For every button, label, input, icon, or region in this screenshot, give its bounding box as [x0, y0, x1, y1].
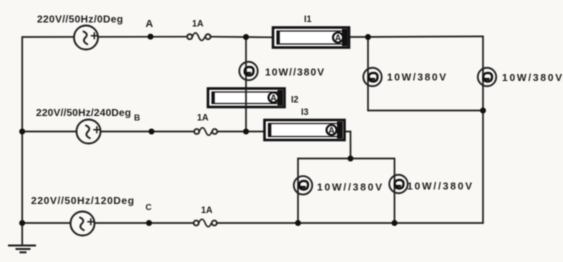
svg-text:10W//380V: 10W//380V: [317, 183, 382, 194]
wire phase B fuse to I3: [215, 131, 265, 133]
junction left bus phase B: [19, 129, 25, 135]
svg-text:A: A: [328, 126, 335, 136]
svg-text:A: A: [146, 18, 154, 30]
ground: [8, 246, 36, 253]
fuse F3: [194, 219, 217, 227]
wire phase C fuse to right: [215, 222, 484, 224]
wire phase C horizontal: [22, 222, 196, 224]
svg-text:I3: I3: [301, 107, 309, 117]
junction I3 output rail: [348, 156, 354, 162]
wire lower lamps top rail: [298, 158, 395, 160]
fuse F1: [187, 33, 210, 41]
lamp L5: [389, 175, 407, 193]
svg-text:I1: I1: [304, 14, 312, 24]
lamp L3: [478, 68, 496, 86]
svg-text:1A: 1A: [201, 205, 213, 215]
node C: [146, 220, 152, 226]
wire lamp L5 vertical: [394, 159, 396, 224]
ac source V2: [77, 120, 101, 144]
junction phase A to L2 branch: [365, 34, 371, 40]
ammeter I3: [265, 120, 345, 140]
wire L2 bottom to L3: [368, 110, 483, 112]
svg-text:A: A: [335, 33, 342, 43]
svg-text:10W//380V: 10W//380V: [407, 182, 472, 193]
wire phase A horizontal: [22, 36, 189, 38]
ammeter I2: [208, 89, 285, 108]
svg-text:A: A: [270, 93, 277, 103]
wire phase B horizontal: [22, 131, 196, 133]
junction left bus phase C: [19, 220, 25, 226]
junction branch at phase B: [243, 129, 249, 135]
junction phase A to L1 branch: [243, 34, 249, 40]
junction L4 phase C: [295, 220, 301, 226]
wire I3 output down: [345, 132, 351, 159]
wire lamp L2 branch vertical: [367, 37, 369, 111]
lamp L1: [239, 62, 257, 80]
svg-text:C: C: [146, 202, 152, 212]
lamp L4: [294, 176, 312, 194]
ammeter I1: [273, 28, 349, 48]
svg-text:1A: 1A: [192, 19, 204, 29]
junction L5 phase C: [392, 220, 398, 226]
wire right vertical branch (lamp L3): [482, 36, 484, 223]
svg-text:10W//380V: 10W//380V: [265, 68, 324, 79]
svg-text:220V//50Hz/120Deg: 220V//50Hz/120Deg: [31, 196, 134, 207]
wire phase A fuse to I1: [208, 36, 273, 39]
svg-text:220V//50Hz/0Deg: 220V//50Hz/0Deg: [37, 15, 123, 26]
svg-text:I2: I2: [291, 95, 299, 105]
svg-text:220V//50Hz/240Deg: 220V//50Hz/240Deg: [36, 108, 131, 119]
lamp L2: [363, 68, 381, 86]
svg-text:1A: 1A: [197, 113, 209, 123]
svg-text:10W/380V: 10W/380V: [502, 73, 562, 84]
wire left bus vertical: [21, 37, 23, 246]
ac source V3: [71, 212, 95, 236]
svg-text:B: B: [134, 113, 140, 123]
wire branch A-B vertical through L1 and I2: [245, 37, 247, 132]
svg-text:10W/380V: 10W/380V: [387, 73, 446, 84]
wire lamp L4 vertical: [297, 159, 299, 224]
ac source V1: [74, 26, 98, 50]
node A: [148, 34, 154, 40]
node B: [149, 129, 155, 135]
wire I1 to top-right corner: [349, 35, 483, 38]
junction L2L3 rail to right vertical: [480, 108, 486, 114]
fuse F2: [194, 128, 217, 136]
